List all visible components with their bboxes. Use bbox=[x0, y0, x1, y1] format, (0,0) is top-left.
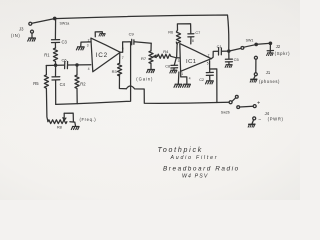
svg-text:R4: R4 bbox=[163, 49, 169, 54]
svg-text:R2: R2 bbox=[80, 81, 86, 86]
svg-text:C1: C1 bbox=[217, 44, 223, 49]
svg-text:C2: C2 bbox=[199, 78, 204, 82]
svg-text:(Freq.): (Freq.) bbox=[80, 117, 97, 122]
svg-text:(phones): (phones) bbox=[259, 79, 280, 84]
svg-text:Audio Filter: Audio Filter bbox=[170, 155, 219, 161]
svg-text:Sw2b: Sw2b bbox=[221, 111, 230, 115]
svg-text:6: 6 bbox=[122, 46, 124, 50]
svg-text:W4 PSV: W4 PSV bbox=[182, 174, 209, 180]
svg-text:1: 1 bbox=[181, 72, 183, 76]
svg-text:4: 4 bbox=[189, 76, 191, 80]
svg-text:R8: R8 bbox=[57, 126, 62, 130]
svg-text:Breadboard Radio: Breadboard Radio bbox=[163, 165, 240, 172]
svg-text:R3: R3 bbox=[112, 69, 118, 74]
svg-text:IC2: IC2 bbox=[96, 52, 108, 59]
svg-text:SW1a: SW1a bbox=[60, 22, 70, 26]
svg-text:C5: C5 bbox=[234, 57, 240, 62]
svg-text:(Gain): (Gain) bbox=[136, 76, 153, 81]
svg-text:3: 3 bbox=[87, 44, 89, 48]
svg-text:−: − bbox=[258, 117, 261, 123]
svg-text:J1: J1 bbox=[266, 70, 271, 75]
svg-text:(PWR): (PWR) bbox=[268, 117, 284, 122]
svg-text:(Spkr): (Spkr) bbox=[275, 51, 291, 56]
svg-text:3: 3 bbox=[178, 59, 180, 63]
svg-text:IC1: IC1 bbox=[186, 59, 197, 65]
svg-text:C8: C8 bbox=[165, 64, 170, 68]
svg-text:2: 2 bbox=[208, 53, 210, 57]
svg-text:R6: R6 bbox=[168, 30, 173, 34]
svg-text:4: 4 bbox=[88, 67, 90, 71]
svg-text:J2: J2 bbox=[276, 44, 281, 49]
svg-text:SW1: SW1 bbox=[246, 38, 254, 42]
svg-text:(IN): (IN) bbox=[11, 33, 20, 38]
svg-text:C9: C9 bbox=[129, 32, 135, 37]
svg-text:C4: C4 bbox=[60, 82, 66, 87]
svg-text:7: 7 bbox=[122, 56, 124, 60]
svg-text:R1: R1 bbox=[44, 53, 50, 58]
svg-text:2: 2 bbox=[88, 39, 90, 43]
svg-text:5: 5 bbox=[207, 62, 209, 66]
svg-text:J3: J3 bbox=[19, 26, 24, 31]
svg-text:Toothpick: Toothpick bbox=[158, 147, 203, 154]
svg-text:8: 8 bbox=[192, 39, 194, 43]
svg-text:C3: C3 bbox=[62, 39, 68, 44]
svg-text:R7: R7 bbox=[141, 56, 147, 61]
svg-text:J4: J4 bbox=[265, 111, 270, 116]
svg-text:R5: R5 bbox=[33, 81, 39, 86]
svg-text:+: + bbox=[257, 100, 260, 106]
svg-text:C7: C7 bbox=[195, 31, 200, 35]
svg-text:C6: C6 bbox=[62, 57, 68, 62]
